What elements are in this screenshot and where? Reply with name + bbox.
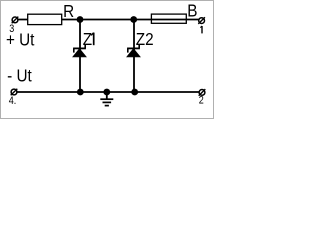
terminal 4 <box>9 89 17 108</box>
wire Z2 vertical <box>133 20 135 93</box>
node B (top junction at Z2) <box>130 16 137 23</box>
frame border <box>1 1 214 119</box>
svg-text:2: 2 <box>199 95 204 107</box>
wire top rail <box>18 19 199 21</box>
ground <box>100 92 113 106</box>
node D (bottom junction at ground) <box>103 89 110 96</box>
svg-text:R: R <box>63 1 74 21</box>
wire Z1 vertical <box>79 20 81 93</box>
node A (top junction at Z1) <box>77 16 84 23</box>
node E (bottom junction at Z2) <box>131 89 138 96</box>
svg-text:B: B <box>187 1 197 21</box>
svg-text:+ Ut: + Ut <box>6 30 35 50</box>
fuse B <box>151 1 198 24</box>
terminal 1 <box>198 17 205 33</box>
svg-text:Z2: Z2 <box>136 29 154 49</box>
svg-text:- Ut: - Ut <box>7 65 32 85</box>
svg-text:4.: 4. <box>9 95 17 107</box>
zener diode Z1 <box>73 29 94 57</box>
svg-text:Z: Z <box>83 29 92 49</box>
resistor R <box>28 1 74 25</box>
pin number 1 <box>201 26 203 33</box>
wire bottom rail <box>17 91 200 93</box>
node C (bottom junction at Z1) <box>77 89 84 96</box>
terminal 3 <box>9 17 18 36</box>
zener diode Z2 <box>127 29 154 57</box>
terminal 2 <box>199 89 206 107</box>
